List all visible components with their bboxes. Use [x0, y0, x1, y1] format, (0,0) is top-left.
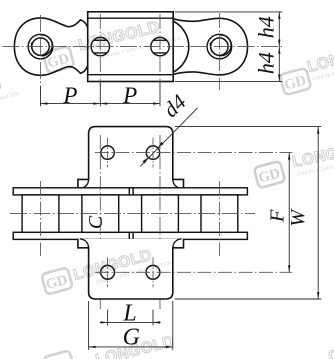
watermark wisp bottom-right corner [327, 346, 334, 359]
bottom bar plate joint tick left [128, 232, 130, 239]
top hole left vertical cross [107, 138, 109, 168]
svg-text:L: L [122, 301, 136, 327]
svg-text:F: F [266, 209, 288, 223]
watermark wisp top-left corner [0, 73, 20, 106]
G arrows [89, 346, 96, 348]
W extension top [175, 126, 321, 128]
pin4 vertical centerline [218, 13, 220, 90]
top hole right vertical cross [152, 138, 154, 168]
svg-text:P: P [62, 83, 77, 108]
roller box 2 [82, 195, 119, 232]
svg-text:W: W [287, 208, 309, 227]
L arrows (outside) [101, 321, 108, 323]
svg-text:h4: h4 [254, 52, 279, 74]
horizontal centerline side view [3, 46, 283, 48]
pin2 vertical extension [99, 83, 101, 107]
watermark logo GD top-right [280, 68, 312, 95]
pin2 centerline vertical [99, 135, 101, 309]
arrow P right [153, 102, 160, 104]
watermark wisp left edge [0, 230, 2, 252]
h4 dimension line [278, 12, 280, 82]
bottom attachment hole right [146, 265, 160, 279]
top bar plate joint tick right [132, 188, 134, 195]
bottom hole right vertical cross [152, 257, 154, 287]
band horizontal centerline [10, 213, 255, 215]
top attachment bend arc right [173, 180, 182, 189]
svg-text:O: O [327, 346, 334, 359]
pin1 vertical centerline [40, 15, 42, 86]
pin2 chord lines [94, 39, 107, 41]
pin4 centerline vertical [218, 181, 220, 256]
L extension right [152, 310, 154, 326]
roller box 1 [22, 195, 59, 232]
watermark logo GD bottom [43, 350, 75, 359]
bottom attachment hole left [101, 265, 115, 279]
watermark text LONGOLD bottom [94, 333, 176, 359]
top attachment bend arc left [80, 180, 89, 189]
G extension right [172, 301, 174, 350]
bottom attachment bend arc left [80, 239, 89, 248]
d4 leader line [140, 108, 197, 166]
W dimension line [317, 127, 319, 299]
clipped cap arc of pin3 (right plate) [173, 21, 189, 72]
pin2 vertical centerline [99, 14, 101, 86]
L dimension line [100, 321, 161, 323]
chain band top bar [13, 188, 247, 195]
arrows P middle [93, 102, 100, 104]
bottom attachment bend arc right [173, 239, 182, 248]
W extension bottom [175, 298, 321, 300]
bushing pin2 circle [91, 37, 109, 55]
F arrows [288, 153, 290, 160]
watermark logo GD mid-right [254, 161, 286, 188]
bottom bar plate joint tick right [132, 232, 134, 239]
svg-text:C: C [85, 215, 107, 229]
watermark logo GD mid-left [41, 267, 73, 294]
bottom hole left vertical cross [107, 257, 109, 287]
bottom hole centerline horizontal / F extension [95, 271, 292, 273]
pin4 clip arc [210, 34, 232, 56]
G extension left [88, 301, 90, 350]
outer link plate left (dog-bone) [14, 18, 90, 75]
watermark text LONGOLD mid-right [291, 138, 334, 178]
pin3 vertical extension [159, 83, 161, 107]
G dimension line [89, 346, 173, 348]
chain band bottom bar [13, 232, 247, 239]
top attachment hole right [146, 146, 159, 159]
attachment plate rectangle (side view) [88, 12, 174, 82]
watermark text LONGOLD mid-left [72, 242, 175, 291]
h4 extension top [175, 11, 282, 13]
d4 leader arrows [143, 157, 149, 163]
top attachment plate white fill [78, 127, 184, 189]
watermark text LONG top-right [306, 38, 334, 83]
watermark logo GD top-left [43, 46, 75, 73]
top hole centerline horizontal / F extension [95, 152, 292, 154]
roller box 3 [142, 195, 179, 232]
h4 arrows [278, 12, 280, 19]
h4 extension bottom [175, 80, 282, 82]
pin3 vertical centerline [159, 14, 161, 86]
F dimension line [288, 153, 290, 273]
pin 1 circles [28, 34, 53, 59]
arrow P left [41, 102, 48, 104]
W arrows [317, 127, 319, 134]
top bar plate joint tick left [128, 188, 130, 195]
top attachment hole left [101, 146, 114, 159]
roller box 4 [201, 195, 238, 232]
svg-text:P: P [122, 83, 137, 108]
watermark text LONGOLD top-left [77, 14, 181, 65]
roller pin4 circles [207, 34, 232, 59]
bushing pin3 circle [151, 37, 169, 55]
pin 1 clip arc [31, 34, 53, 56]
svg-text:h4: h4 [254, 16, 279, 38]
L extension left [107, 310, 109, 326]
bottom attachment plate outline [78, 239, 184, 299]
bottom attachment plate white fill [78, 239, 184, 299]
pin3 centerline vertical [159, 135, 161, 309]
pin1 centerline vertical [40, 181, 42, 256]
top attachment plate outline [78, 127, 184, 189]
pin3 chord lines [153, 39, 166, 41]
dimension line P P [41, 103, 161, 105]
outer link plate right (dog-bone) [173, 18, 247, 75]
inner plate edge lines [88, 17, 174, 19]
